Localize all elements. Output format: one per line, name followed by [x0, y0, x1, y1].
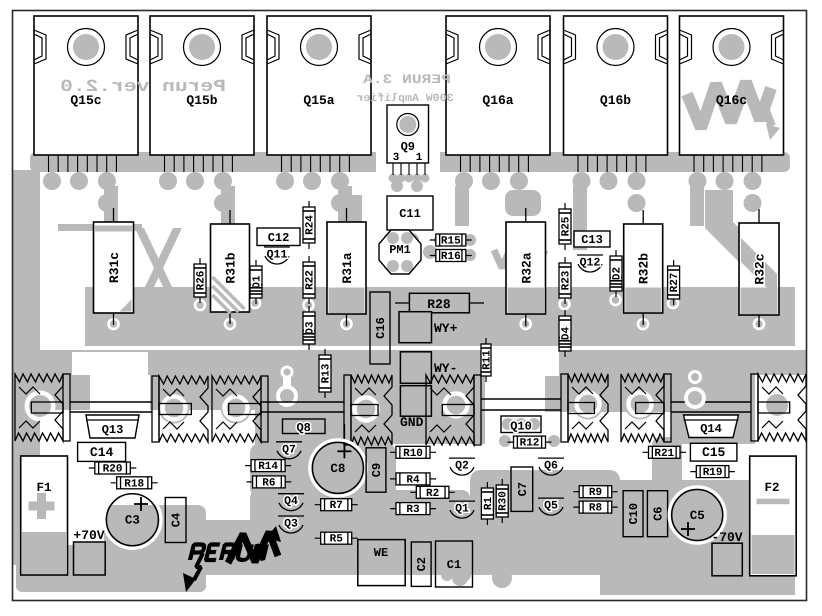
heatsink H3	[212, 376, 268, 442]
heatsink rail left	[70, 402, 152, 412]
svg-text:Q1: Q1	[455, 503, 469, 516]
svg-text:Q13: Q13	[102, 423, 124, 437]
resistor R18	[111, 477, 158, 491]
svg-text:Q2: Q2	[455, 460, 469, 473]
resistor R16	[430, 250, 472, 264]
svg-text:R20: R20	[103, 464, 123, 476]
svg-text:R9: R9	[589, 487, 602, 499]
svg-text:Q16c: Q16c	[716, 93, 747, 108]
svg-text:Q7: Q7	[282, 443, 296, 456]
transistor Q12	[577, 255, 603, 272]
resistor R8	[573, 501, 618, 514]
svg-text:Q15a: Q15a	[303, 93, 334, 108]
resistor R11	[481, 338, 494, 382]
transistor Q16c	[680, 16, 784, 172]
svg-text:C15: C15	[702, 445, 726, 460]
transistor Q16b	[564, 16, 668, 172]
svg-text:C11: C11	[399, 207, 421, 221]
resistor R3	[390, 503, 436, 516]
transistor Q15b	[150, 16, 254, 172]
svg-text:F1: F1	[36, 481, 51, 495]
svg-text:WY+: WY+	[434, 321, 458, 336]
svg-text:Q5: Q5	[544, 500, 558, 513]
svg-text:R31c: R31c	[107, 252, 122, 283]
resistor R14	[245, 460, 291, 474]
resistor R19	[690, 466, 735, 480]
svg-text:R11: R11	[482, 350, 494, 370]
svg-text:PM1: PM1	[389, 243, 411, 257]
resistor R27	[668, 260, 682, 305]
heatsink H4	[344, 375, 392, 445]
heatsink rail right	[671, 402, 751, 412]
transistor Q5	[538, 498, 564, 515]
svg-text:R10: R10	[403, 448, 423, 460]
transistor Q15c	[34, 16, 138, 172]
diode D3	[303, 306, 317, 350]
capacitor C11	[387, 196, 433, 230]
svg-text:F2: F2	[764, 481, 779, 495]
resistor R10	[390, 446, 436, 460]
resistor R32c	[739, 209, 779, 327]
resistor R12	[508, 436, 552, 450]
capacitor C8	[310, 424, 366, 496]
svg-text:R32c: R32c	[753, 253, 768, 284]
transistor Q8	[283, 419, 326, 435]
svg-text:C4: C4	[170, 513, 184, 527]
transistor Q13	[86, 415, 139, 438]
svg-text:C6: C6	[652, 506, 666, 520]
svg-text:3: 3	[393, 152, 400, 164]
svg-text:R30: R30	[498, 491, 510, 511]
svg-text:R27: R27	[669, 273, 681, 293]
thermal pad above Q14	[686, 389, 704, 407]
resistor R28	[395, 293, 484, 313]
capacitor C10	[623, 491, 643, 537]
svg-text:GND: GND	[400, 415, 424, 430]
transistor Q9	[387, 105, 429, 175]
svg-text:R5: R5	[330, 534, 344, 546]
transistor Q1	[449, 501, 475, 518]
svg-text:PERUN 3.A: PERUN 3.A	[363, 72, 451, 87]
resistor R23	[559, 257, 573, 304]
diode D2	[610, 250, 624, 297]
svg-text:Q3: Q3	[284, 518, 298, 531]
svg-text:+70V: +70V	[73, 528, 104, 543]
transistor Q11	[264, 247, 290, 264]
resistor R31c	[94, 208, 134, 325]
svg-text:C3: C3	[125, 514, 140, 528]
svg-text:R13: R13	[321, 363, 333, 383]
svg-text:Q11: Q11	[267, 249, 288, 262]
svg-text:R22: R22	[305, 270, 317, 290]
svg-text:C16: C16	[374, 317, 388, 339]
svg-text:Q4: Q4	[284, 495, 298, 508]
svg-text:R31b: R31b	[224, 252, 239, 283]
resistor R1	[481, 482, 495, 525]
svg-text:R6: R6	[262, 477, 275, 489]
heatsink H6	[561, 374, 608, 442]
svg-text:R32a: R32a	[519, 252, 534, 283]
resistor R2	[410, 486, 455, 500]
svg-text:R31a: R31a	[340, 252, 355, 283]
resistor R20	[89, 462, 137, 476]
copper pours and traces	[13, 150, 806, 595]
transistor Q16a	[446, 16, 550, 172]
capacitor C14	[78, 442, 126, 461]
lead pads with thermal relief	[195, 300, 205, 310]
heatsink H8	[751, 374, 806, 441]
svg-text:R2: R2	[426, 488, 439, 500]
mirrored silkscreen text Perun ver.2.0	[60, 78, 226, 97]
svg-text:1: 1	[416, 152, 423, 164]
svg-text:R24: R24	[305, 215, 317, 235]
heatsink H2	[152, 376, 208, 442]
resistor R4	[390, 473, 436, 487]
resistor R24	[303, 201, 317, 249]
transistor Q10	[501, 416, 541, 434]
pad WY-	[400, 352, 457, 384]
svg-text:R7: R7	[330, 500, 343, 512]
transistor Q15a	[267, 16, 371, 172]
mirrored copper logo (center)	[494, 247, 545, 268]
svg-text:R32b: R32b	[637, 253, 652, 284]
resistor R22	[303, 256, 317, 304]
pads near R12	[499, 435, 511, 447]
svg-text:R26: R26	[196, 271, 208, 291]
resistor R6	[247, 476, 292, 490]
heatsink rail mid-right	[481, 399, 561, 410]
svg-text:C7: C7	[516, 482, 530, 496]
svg-text:Q10: Q10	[510, 420, 532, 434]
svg-text:Q12: Q12	[580, 257, 601, 270]
capacitor C4	[165, 498, 186, 543]
diode D1	[250, 260, 264, 304]
mirrored silkscreen text PERUN 3.A	[363, 72, 451, 87]
svg-text:R1: R1	[483, 497, 495, 511]
svg-text:R25: R25	[561, 216, 573, 236]
pad +70V	[73, 528, 105, 575]
svg-text:C13: C13	[581, 233, 603, 247]
resistor R26	[194, 258, 208, 303]
capacitor C5	[669, 487, 725, 543]
resistor R25	[559, 203, 573, 250]
svg-text:Perun ver.2.0: Perun ver.2.0	[60, 78, 226, 97]
svg-text:D1: D1	[252, 275, 264, 289]
heatsink H7	[621, 374, 671, 442]
svg-text:C2: C2	[415, 557, 429, 571]
svg-text:D2: D2	[612, 267, 624, 280]
capacitor C13	[574, 231, 610, 247]
svg-text:R28: R28	[427, 297, 451, 312]
transistor Q3	[278, 516, 304, 533]
fuse F1	[21, 456, 68, 575]
svg-text:Q14: Q14	[700, 422, 722, 436]
transistor Q4	[278, 494, 304, 511]
resistor R32a	[506, 208, 546, 326]
capacitor C7	[511, 467, 533, 511]
svg-text:R4: R4	[406, 474, 420, 486]
capacitor C6	[647, 491, 667, 537]
transistor Q14	[684, 415, 739, 438]
capacitor C1	[436, 541, 473, 587]
svg-text:Q9: Q9	[401, 140, 415, 154]
resistor R9	[573, 486, 618, 500]
transistor Q6	[538, 458, 564, 475]
svg-text:WY-: WY-	[434, 361, 457, 376]
capacitor C12	[257, 228, 300, 246]
svg-text:R14: R14	[258, 461, 278, 473]
svg-text:Q16b: Q16b	[600, 93, 631, 108]
svg-text:C8: C8	[330, 462, 345, 476]
svg-text:C14: C14	[90, 445, 114, 460]
svg-text:R18: R18	[124, 478, 144, 490]
resistor R7	[315, 499, 358, 513]
mirrored copper logo PERUN (top right)	[687, 82, 772, 128]
capacitor C15	[690, 443, 737, 461]
fuse F2	[750, 456, 797, 576]
svg-text:D3: D3	[305, 321, 317, 335]
svg-text:D4: D4	[561, 327, 573, 341]
svg-text:R8: R8	[589, 503, 603, 515]
resistor R15	[430, 234, 472, 248]
svg-text:R3: R3	[406, 504, 420, 516]
resistor R31b	[211, 210, 250, 324]
heatsink H5	[426, 375, 481, 445]
resistor R30	[496, 479, 510, 523]
capacitor C2	[411, 542, 431, 586]
pour separation channel	[60, 346, 795, 350]
svg-text:C10: C10	[627, 503, 641, 525]
capacitor C3	[104, 491, 161, 548]
resistor R31a	[327, 208, 366, 326]
capacitor C9	[366, 448, 386, 492]
connector WE	[358, 540, 405, 586]
pad WY+	[399, 312, 458, 343]
transistor Q7	[276, 442, 302, 459]
svg-text:R21: R21	[654, 448, 674, 460]
svg-text:R15: R15	[441, 236, 461, 248]
mirrored silkscreen text 300W Amplifier	[356, 92, 453, 105]
resistor R5	[315, 532, 358, 546]
pour gap right rail	[483, 350, 559, 376]
diode D4	[559, 310, 573, 357]
svg-text:C12: C12	[268, 231, 290, 245]
trimmer PM1	[379, 230, 421, 274]
pad GND	[400, 386, 431, 430]
pour gap left rail	[72, 352, 148, 375]
resistor R32b	[624, 210, 663, 325]
heatsink rail mid-left	[260, 402, 344, 412]
svg-text:C9: C9	[370, 463, 384, 477]
heatsink H1	[15, 374, 70, 441]
pad -70V	[711, 530, 742, 576]
svg-text:300W Amplifier: 300W Amplifier	[356, 92, 453, 105]
silkscreen logo PERUN	[183, 526, 281, 592]
svg-text:WE: WE	[374, 546, 388, 560]
transistor Q2	[449, 458, 475, 475]
svg-text:R23: R23	[561, 270, 573, 290]
svg-text:R19: R19	[703, 467, 723, 479]
svg-text:Q8: Q8	[296, 421, 310, 435]
svg-text:R16: R16	[441, 251, 461, 263]
thermal pad between H3 and H4	[278, 387, 296, 405]
svg-text:Q16a: Q16a	[482, 93, 513, 108]
resistor R13	[319, 349, 333, 398]
capacitor C16	[370, 292, 390, 364]
svg-text:Q6: Q6	[544, 460, 558, 473]
svg-text:C5: C5	[690, 509, 705, 523]
resistor R21	[643, 446, 687, 460]
svg-text:R12: R12	[520, 438, 540, 450]
